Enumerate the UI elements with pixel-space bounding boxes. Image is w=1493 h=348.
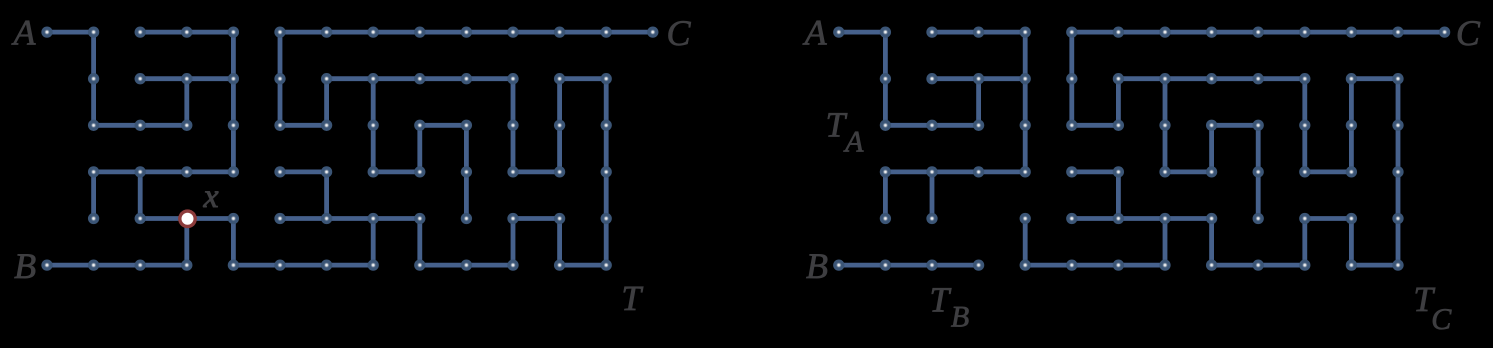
- wire L col4 r0-r3: [231, 32, 236, 172]
- nodes R row0: [833, 26, 1450, 37]
- wire R col10 r1-r3: [1302, 79, 1307, 172]
- wire R row2 c8-c9: [1212, 123, 1259, 128]
- wire L row4 c2-c4: [140, 216, 233, 221]
- wire R row3 c5-c6: [1072, 169, 1119, 174]
- wire R col1 r0-r2: [883, 32, 888, 125]
- wire R row1 c6-c10: [1118, 76, 1304, 81]
- wire R col2 r3-r4: [930, 172, 935, 219]
- wire R col6 r1-r2: [1116, 79, 1121, 126]
- wire L row1 c6-c10: [327, 76, 513, 81]
- nodes L row5: [41, 259, 612, 270]
- wire L row5 c0-c3: [47, 263, 187, 268]
- wire L col4 r4-r5: [231, 219, 236, 266]
- nodes L row2: [88, 120, 612, 131]
- wire L col9 r2-r4: [464, 125, 469, 218]
- svg-text:x: x: [203, 178, 219, 215]
- wire R row5 c4-c7: [1025, 263, 1165, 268]
- nodes R row1: [880, 73, 1404, 84]
- wire R row3 c10-c11: [1305, 169, 1352, 174]
- wire L row1 c2-c4: [140, 76, 233, 81]
- wire L col8 r4-r5: [417, 219, 422, 266]
- nodes R row5: [833, 259, 1404, 270]
- wire R row0 c2-c4: [932, 30, 1025, 35]
- wire R col1 r3-r4: [883, 172, 888, 219]
- wire L row5 c11-c12: [560, 263, 607, 268]
- nodes L row4: [88, 213, 612, 224]
- wire L col12 r1-r5: [604, 79, 609, 265]
- node x (highlighted): [178, 209, 197, 228]
- wire L row0 c0-c1: [47, 30, 94, 35]
- wire L row4 c5-c8: [280, 216, 420, 221]
- wire L row3 c7-c8: [373, 169, 420, 174]
- wire R row5 c0-c3: [839, 263, 979, 268]
- wire L row2 c8-c9: [420, 123, 467, 128]
- wire L col10 r1-r3: [511, 79, 516, 172]
- wire R col9 r2-r4: [1256, 125, 1261, 218]
- wire R row5 c11-c12: [1351, 263, 1398, 268]
- wire R col6 r3-r4: [1116, 172, 1121, 219]
- wire R col8 r2-r3: [1209, 125, 1214, 172]
- wire L col3 r4-r5: [184, 219, 189, 266]
- wire L col1 r3-r4: [91, 172, 96, 219]
- svg-text:C: C: [1456, 13, 1481, 53]
- wire L col7 r4-r5: [371, 219, 376, 266]
- nodes R row4: [880, 213, 1404, 224]
- wire R row3 c7-c8: [1165, 169, 1212, 174]
- svg-text:A: A: [12, 13, 37, 53]
- wire L row3 c1-c4: [94, 169, 234, 174]
- wire L row0 c5-c13: [280, 30, 653, 35]
- svg-text:B: B: [951, 301, 969, 334]
- wire L row5 c4-c7: [233, 263, 373, 268]
- wire R row2 c1-c3: [885, 123, 978, 128]
- wire R col12 r1-r5: [1396, 79, 1401, 265]
- wire R row2 c5-c6: [1072, 123, 1119, 128]
- wire R col5 r0-r2: [1069, 32, 1074, 125]
- nodes R row2: [880, 120, 1404, 131]
- wire L col11 r4-r5: [557, 219, 562, 266]
- wire L row2 c5-c6: [280, 123, 327, 128]
- wire R row4 c10-c11: [1305, 216, 1352, 221]
- wire L row2 c1-c3: [94, 123, 187, 128]
- nodes L row1: [88, 73, 612, 84]
- svg-text:C: C: [666, 13, 691, 53]
- wire R row0 c0-c1: [839, 30, 886, 35]
- svg-text:T: T: [621, 278, 643, 318]
- svg-text:B: B: [806, 246, 828, 286]
- svg-text:A: A: [843, 126, 864, 159]
- wire L row3 c10-c11: [513, 169, 560, 174]
- wire R col4 r4-r5: [1023, 219, 1028, 266]
- svg-text:C: C: [1431, 303, 1452, 336]
- wire R col7 r4-r5: [1163, 219, 1168, 266]
- wire R col7 r1-r3: [1163, 79, 1168, 172]
- svg-text:B: B: [14, 246, 36, 286]
- wire R row1 c2-c4: [932, 76, 1025, 81]
- svg-text:A: A: [803, 13, 828, 53]
- wire R col11 r1-r3: [1349, 79, 1354, 172]
- wire L row3 c5-c6: [280, 169, 327, 174]
- wire R row1 c11-c12: [1351, 76, 1398, 81]
- wire R row0 c5-c13: [1072, 30, 1445, 35]
- wire L col6 r3-r4: [324, 172, 329, 219]
- wire L col7 r1-r3: [371, 79, 376, 172]
- svg-text:T: T: [930, 279, 952, 319]
- wire L col6 r1-r2: [324, 79, 329, 126]
- wire L col5 r0-r2: [278, 32, 283, 125]
- wire L col3 r1-r2: [184, 79, 189, 126]
- nodes L row3: [88, 166, 612, 177]
- wire R col10 r4-r5: [1302, 219, 1307, 266]
- wire R col3 r1-r2: [976, 79, 981, 126]
- wire L row5 c8-c10: [420, 263, 513, 268]
- wire L col10 r4-r5: [511, 219, 516, 266]
- wire R row3 c1-c4: [885, 169, 1025, 174]
- wire L col8 r2-r3: [417, 125, 422, 172]
- nodes R row3: [880, 166, 1404, 177]
- wire R row4 c5-c8: [1072, 216, 1212, 221]
- wire R col4 r0-r3: [1023, 32, 1028, 172]
- wire R row5 c8-c10: [1212, 263, 1305, 268]
- wire L row1 c11-c12: [560, 76, 607, 81]
- wire R col11 r4-r5: [1349, 219, 1354, 266]
- wire L col11 r1-r3: [557, 79, 562, 172]
- wire L row0 c2-c4: [140, 30, 233, 35]
- nodes L row0: [41, 26, 658, 37]
- wire L row4 c10-c11: [513, 216, 560, 221]
- wire L col2 r3-r4: [138, 172, 143, 219]
- wire L col1 r0-r2: [91, 32, 96, 125]
- wire R col8 r4-r5: [1209, 219, 1214, 266]
